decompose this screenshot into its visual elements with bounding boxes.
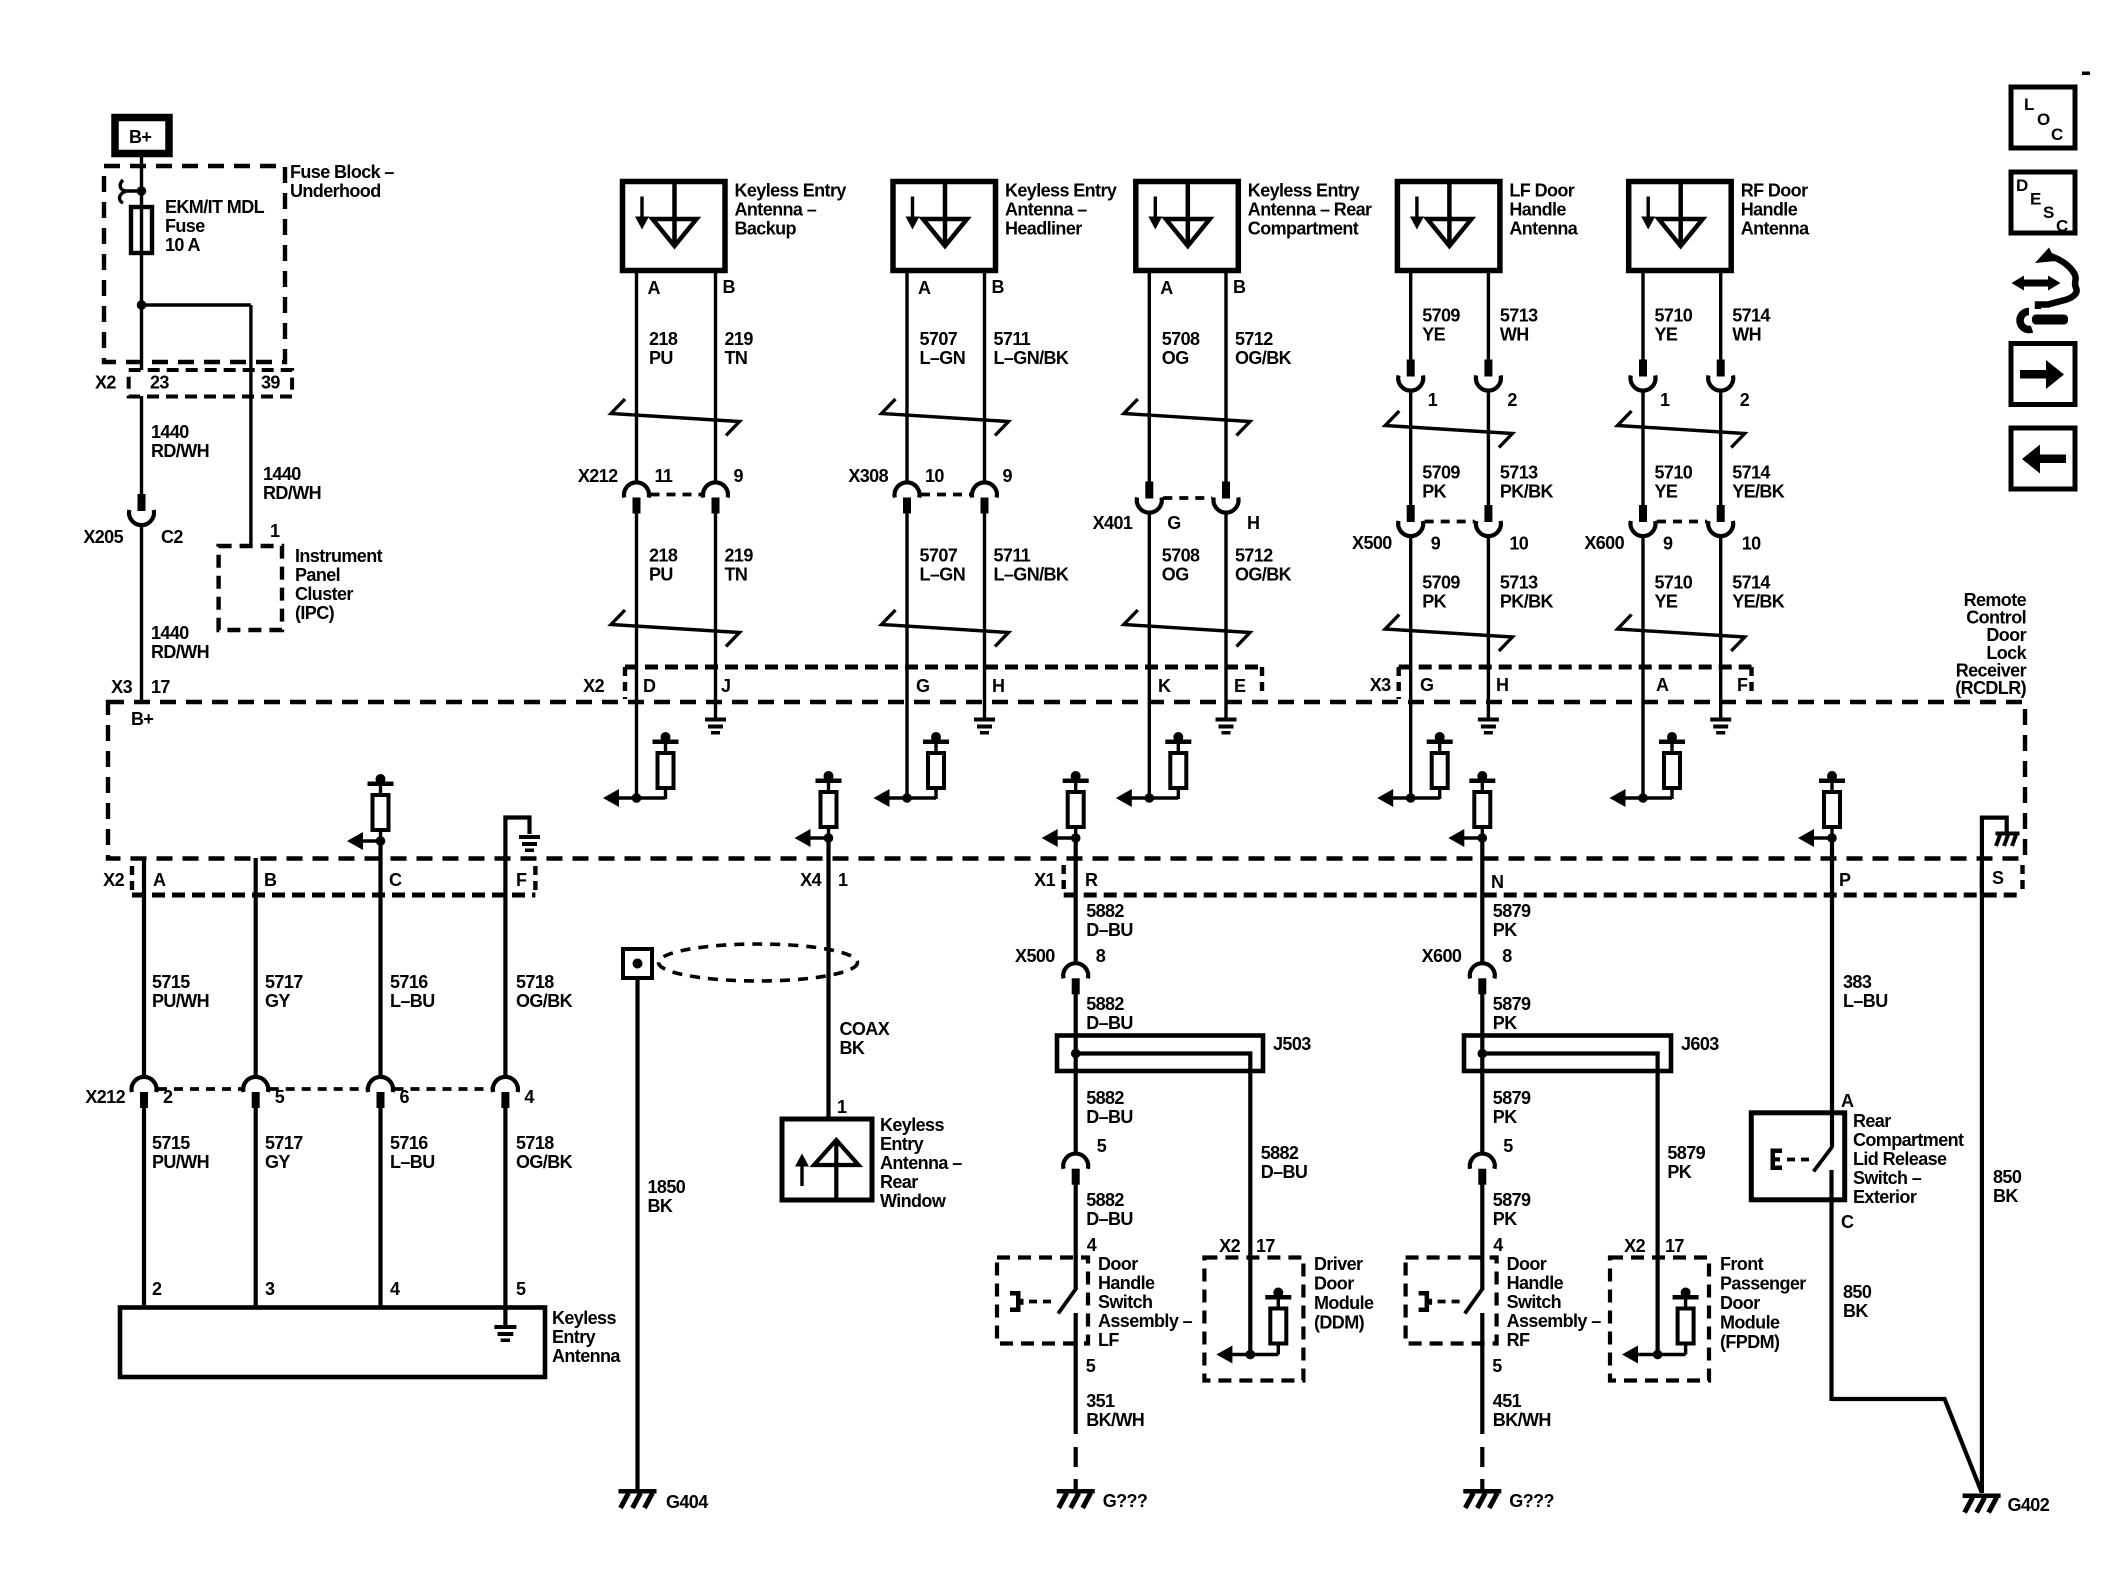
svg-text:Antenna: Antenna (1741, 219, 1810, 239)
svg-text:J: J (721, 676, 730, 696)
Instrument Panel Cluster dashed box (219, 546, 282, 630)
svg-text:9: 9 (734, 466, 744, 486)
svg-text:5882: 5882 (1086, 1190, 1124, 1210)
svg-text:Keyless Entry: Keyless Entry (735, 181, 847, 201)
svg-text:C2: C2 (161, 527, 183, 547)
svg-text:Antenna –: Antenna – (1005, 200, 1087, 220)
svg-text:OG/BK: OG/BK (516, 991, 573, 1011)
svg-text:5707: 5707 (920, 329, 958, 349)
RCDLR internal arrow (1116, 789, 1132, 807)
svg-text:1: 1 (838, 870, 848, 890)
svg-text:Headliner: Headliner (1005, 219, 1082, 239)
svg-text:B: B (992, 277, 1005, 297)
wire P column (383 L-BU) (1830, 838, 1834, 1148)
svg-text:4: 4 (524, 1087, 534, 1107)
svg-text:9: 9 (1663, 534, 1673, 554)
svg-text:L–BU: L–BU (1843, 991, 1888, 1011)
svg-text:G: G (1167, 513, 1180, 533)
svg-text:5: 5 (1097, 1136, 1107, 1156)
junction dot inline (1827, 833, 1837, 843)
dashed wire to ground (1074, 1447, 1078, 1490)
svg-text:Module: Module (1314, 1293, 1374, 1313)
svg-text:L–BU: L–BU (390, 991, 435, 1011)
svg-text:5879: 5879 (1493, 1088, 1531, 1108)
rear switch lower contact (1829, 1170, 1833, 1401)
svg-text:1440: 1440 (151, 623, 189, 643)
wire right (1719, 270, 1722, 361)
junction dot at fuse feed (137, 186, 147, 196)
Keyless Entry Antenna Rear Window box (782, 1119, 872, 1200)
svg-text:Underhood: Underhood (290, 181, 381, 201)
svg-text:C: C (389, 870, 402, 890)
svg-text:5714: 5714 (1732, 463, 1770, 483)
wire S column 850 BK (1980, 866, 1984, 1493)
svg-text:1: 1 (270, 521, 280, 541)
RCDLR internal arrow (1610, 789, 1626, 807)
svg-text:Assembly –: Assembly – (1507, 1311, 1602, 1331)
svg-text:5712: 5712 (1235, 546, 1273, 566)
svg-text:Switch: Switch (1507, 1292, 1561, 1312)
icon LOC (2011, 87, 2075, 148)
svg-text:10 A: 10 A (165, 235, 201, 255)
svg-text:J503: J503 (1273, 1034, 1311, 1054)
wire X4-1 coax down (826, 838, 830, 1119)
svg-text:PK: PK (1493, 1107, 1517, 1127)
RCDLR internal arrow inline (1042, 829, 1058, 847)
RCDLR bottom connector dotted row right (1064, 893, 2023, 898)
svg-text:219: 219 (725, 329, 754, 349)
svg-text:5882: 5882 (1086, 1088, 1124, 1108)
ground G402 (1963, 1494, 2001, 1499)
icon DESC (2011, 172, 2075, 233)
module internal arrow (1216, 1346, 1232, 1364)
junction dot module (1246, 1350, 1256, 1360)
power symbol B+ (115, 118, 169, 154)
wire B (1224, 270, 1227, 484)
svg-text:X600: X600 (1422, 946, 1462, 966)
svg-text:YE: YE (1422, 325, 1445, 345)
svg-text:1440: 1440 (151, 422, 189, 442)
wire B lower (1224, 512, 1227, 719)
svg-text:G404: G404 (666, 1492, 708, 1512)
antenna box LF Door (1397, 182, 1500, 271)
svg-text:2: 2 (1507, 390, 1517, 410)
ground G404 (619, 1489, 657, 1494)
wire 1440 RD/WH pin 23 down (140, 396, 143, 496)
svg-text:BK/WH: BK/WH (1086, 1410, 1144, 1430)
svg-text:351: 351 (1086, 1391, 1115, 1411)
RCDLR internal arrow inline (795, 829, 811, 847)
svg-text:Antenna: Antenna (552, 1346, 621, 1366)
RCDLR internal resistor (1435, 732, 1445, 742)
RCDLR internal arrow (874, 789, 890, 807)
connector row X3 top dotted (1399, 665, 1752, 670)
svg-text:5879: 5879 (1493, 1190, 1531, 1210)
svg-text:A: A (648, 278, 661, 298)
junction dot inline (1478, 833, 1488, 843)
svg-text:X1: X1 (1034, 870, 1055, 890)
connector row X2 top dotted (625, 665, 1262, 670)
svg-text:Backup: Backup (735, 219, 797, 239)
svg-text:A: A (1841, 1091, 1854, 1111)
svg-text:D: D (2016, 176, 2028, 195)
svg-text:1: 1 (1660, 390, 1670, 410)
svg-text:1: 1 (1428, 390, 1438, 410)
module internal resistor (1273, 1288, 1283, 1298)
shield crossing lower (882, 610, 1009, 647)
svg-text:X2: X2 (583, 676, 604, 696)
svg-text:(FPDM): (FPDM) (1720, 1332, 1780, 1352)
svg-text:8: 8 (1096, 946, 1106, 966)
svg-text:11: 11 (655, 466, 673, 486)
module box (DDM) (1204, 1258, 1303, 1381)
svg-text:OG/BK: OG/BK (516, 1152, 573, 1172)
svg-text:TN: TN (725, 565, 748, 585)
svg-text:PU: PU (649, 565, 673, 585)
wire left lower (1641, 535, 1644, 798)
svg-text:17: 17 (151, 677, 170, 697)
svg-text:RF Door: RF Door (1741, 181, 1808, 201)
svg-text:X212: X212 (578, 466, 618, 486)
svg-text:PK: PK (1493, 920, 1517, 940)
wire into switch (1480, 1184, 1484, 1291)
svg-text:5709: 5709 (1422, 463, 1460, 483)
svg-text:X308: X308 (848, 466, 888, 486)
svg-text:(DDM): (DDM) (1314, 1313, 1365, 1333)
svg-text:D–BU: D–BU (1261, 1162, 1308, 1182)
wire right (1487, 270, 1490, 361)
svg-text:Keyless: Keyless (880, 1115, 944, 1135)
svg-text:B: B (264, 870, 277, 890)
svg-text:Handle: Handle (1507, 1273, 1564, 1293)
connector X205 C2 (138, 494, 146, 511)
svg-text:X2: X2 (103, 870, 124, 890)
svg-text:5882: 5882 (1261, 1143, 1299, 1163)
svg-text:850: 850 (1843, 1282, 1872, 1302)
wire 1440 RD/WH pin 39 down (249, 396, 252, 546)
svg-text:RD/WH: RD/WH (151, 441, 209, 461)
RCDLR internal arrow inline (1798, 829, 1814, 847)
svg-text:GY: GY (265, 991, 290, 1011)
icon next arrow (2011, 344, 2075, 405)
svg-text:S: S (1992, 868, 2004, 888)
svg-text:Compartment: Compartment (1248, 219, 1359, 239)
svg-text:Antenna –: Antenna – (880, 1153, 962, 1173)
shield crossing upper (882, 399, 1009, 436)
wire A (1148, 270, 1151, 484)
wire to splice (1480, 993, 1484, 1154)
svg-text:X2: X2 (95, 373, 116, 393)
wire B (983, 270, 986, 484)
svg-text:5709: 5709 (1422, 573, 1460, 593)
svg-text:Module: Module (1720, 1313, 1780, 1333)
switch blade (1058, 1289, 1076, 1314)
svg-text:D–BU: D–BU (1086, 1107, 1133, 1127)
ground G??? (1463, 1489, 1501, 1494)
RCDLR internal resistor inline (1827, 771, 1837, 781)
svg-text:X205: X205 (83, 527, 123, 547)
svg-text:Fuse Block –: Fuse Block – (290, 162, 394, 182)
svg-text:Handle: Handle (1509, 200, 1566, 220)
svg-text:X2: X2 (1624, 1236, 1645, 1256)
wire N column upper (1480, 838, 1484, 964)
module internal resistor (1681, 1288, 1691, 1298)
wire A (905, 270, 908, 484)
shield crossing lower (1124, 610, 1250, 647)
svg-text:Rear: Rear (1853, 1111, 1891, 1131)
junction dot inline (824, 833, 834, 843)
svg-text:5715: 5715 (152, 1133, 190, 1153)
svg-text:X212: X212 (85, 1087, 125, 1107)
svg-text:10: 10 (1509, 534, 1528, 554)
svg-text:D: D (643, 676, 656, 696)
svg-text:LF Door: LF Door (1509, 181, 1574, 201)
wire A lower (905, 514, 908, 798)
svg-text:D–BU: D–BU (1086, 920, 1133, 940)
svg-text:D–BU: D–BU (1086, 1209, 1133, 1229)
svg-text:B+: B+ (129, 127, 151, 147)
icon jump with wrench (2012, 276, 2061, 291)
svg-text:850: 850 (1993, 1167, 2022, 1187)
svg-text:5716: 5716 (390, 1133, 428, 1153)
svg-text:5879: 5879 (1667, 1143, 1705, 1163)
svg-text:5713: 5713 (1500, 463, 1538, 483)
RCDLR internal ground (974, 718, 995, 722)
svg-text:RF: RF (1507, 1330, 1530, 1350)
svg-text:5707: 5707 (920, 546, 958, 566)
splice J503 (1057, 1036, 1263, 1072)
svg-text:383: 383 (1843, 972, 1872, 992)
svg-text:5715: 5715 (152, 972, 190, 992)
svg-text:4: 4 (1493, 1235, 1503, 1255)
svg-text:F: F (516, 870, 527, 890)
svg-text:G402: G402 (2008, 1495, 2050, 1515)
wire right mid (1487, 390, 1490, 507)
RCDLR internal resistor (931, 732, 941, 742)
RCDLR internal resistor inline (824, 771, 834, 781)
svg-text:TN: TN (725, 348, 748, 368)
svg-text:Keyless: Keyless (552, 1308, 616, 1328)
svg-text:PK: PK (1422, 592, 1446, 612)
connector X500 (1407, 505, 1415, 522)
wire X1 column upper (1074, 838, 1078, 964)
svg-text:L–BU: L–BU (390, 1152, 435, 1172)
wire junction to pin 39 (142, 303, 251, 306)
wire A down (142, 858, 146, 1078)
svg-text:G: G (916, 676, 929, 696)
inline connector pin 2 (1717, 360, 1725, 377)
shield crossing lower (611, 610, 740, 647)
svg-text:23: 23 (150, 373, 169, 393)
inline connector pin 1 (1639, 360, 1647, 377)
RCDLR internal resistor (661, 732, 671, 742)
wire B lower (714, 514, 717, 719)
svg-text:Keyless Entry: Keyless Entry (1005, 181, 1117, 201)
svg-text:5: 5 (516, 1279, 526, 1299)
svg-text:Lid Release: Lid Release (1853, 1149, 1947, 1169)
svg-text:BK/WH: BK/WH (1493, 1410, 1551, 1430)
svg-text:RD/WH: RD/WH (151, 642, 209, 662)
ground G??? (1057, 1489, 1095, 1494)
svg-text:X500: X500 (1352, 533, 1392, 553)
svg-text:(RCDLR): (RCDLR) (1955, 678, 2026, 698)
svg-text:X600: X600 (1584, 533, 1624, 553)
icon back arrow (2011, 428, 2075, 489)
svg-text:G???: G??? (1103, 1491, 1148, 1511)
svg-text:YE/BK: YE/BK (1732, 592, 1785, 612)
svg-text:Switch –: Switch – (1853, 1168, 1922, 1188)
svg-text:Handle: Handle (1098, 1273, 1155, 1293)
wire right lower (1487, 535, 1490, 718)
inline connector pin 2 (1484, 360, 1492, 377)
svg-text:17: 17 (1256, 1236, 1275, 1256)
svg-text:2: 2 (1740, 390, 1750, 410)
svg-text:5879: 5879 (1493, 901, 1531, 921)
svg-text:E: E (2030, 190, 2041, 209)
wire right mid (1719, 390, 1722, 507)
door handle switch box Door Handle RF (1406, 1258, 1497, 1344)
svg-text:H: H (1247, 513, 1259, 533)
svg-text:PK: PK (1667, 1162, 1691, 1182)
shield box with dot (623, 949, 652, 978)
svg-text:Passenger: Passenger (1720, 1274, 1806, 1294)
svg-text:5718: 5718 (516, 972, 554, 992)
RCDLR internal resistor inline (1071, 771, 1081, 781)
svg-text:L–GN: L–GN (920, 565, 966, 585)
svg-text:(IPC): (IPC) (295, 603, 335, 623)
wire 1440 RD/WH to RCDLR pin 17 (140, 524, 143, 704)
svg-text:C: C (2056, 217, 2068, 236)
svg-text:5710: 5710 (1655, 306, 1693, 326)
svg-text:Antenna: Antenna (1509, 219, 1578, 239)
svg-text:OG: OG (1162, 348, 1189, 368)
svg-text:LF: LF (1098, 1330, 1119, 1350)
junction dot module (1653, 1350, 1663, 1360)
dashed wire to ground (1480, 1447, 1484, 1490)
svg-text:J603: J603 (1681, 1034, 1719, 1054)
svg-text:5713: 5713 (1500, 573, 1538, 593)
svg-text:EKM/IT MDL: EKM/IT MDL (165, 197, 265, 217)
wire B lower (983, 514, 986, 719)
RCDLR internal resistor inline (1477, 771, 1487, 781)
svg-text:Window: Window (880, 1191, 947, 1211)
svg-text:5882: 5882 (1086, 994, 1124, 1014)
wire C to G402 (1832, 1399, 1982, 1492)
svg-text:A: A (918, 278, 931, 298)
wire left lower (1409, 535, 1412, 798)
svg-text:A: A (1160, 278, 1173, 298)
svg-text:O: O (2037, 110, 2050, 129)
svg-text:YE: YE (1655, 482, 1678, 502)
junction dot (1638, 793, 1648, 803)
RCDLR internal ground (1710, 718, 1731, 722)
svg-text:Handle: Handle (1741, 200, 1798, 220)
RCDLR dashed outline (108, 702, 2025, 859)
wire right lower (1719, 535, 1722, 718)
RCDLR internal arrow (603, 789, 619, 807)
wire to splice (1074, 993, 1078, 1154)
svg-text:G???: G??? (1509, 1491, 1554, 1511)
junction dot (632, 793, 642, 803)
svg-text:X4: X4 (800, 870, 821, 890)
svg-text:E: E (1234, 676, 1246, 696)
svg-text:COAX: COAX (840, 1019, 890, 1039)
RCDLR internal ground (1216, 718, 1237, 722)
svg-text:5710: 5710 (1655, 463, 1693, 483)
svg-text:Switch: Switch (1098, 1292, 1152, 1312)
switch lower contact (1074, 1313, 1078, 1434)
svg-text:N: N (1491, 872, 1503, 892)
svg-text:PK: PK (1493, 1013, 1517, 1033)
svg-text:G: G (1420, 675, 1433, 695)
svg-text:L–GN/BK: L–GN/BK (994, 348, 1069, 368)
svg-text:5708: 5708 (1162, 546, 1200, 566)
svg-text:X401: X401 (1093, 513, 1133, 533)
junction dot inline (1071, 833, 1081, 843)
svg-text:C: C (2051, 125, 2063, 144)
svg-text:1850: 1850 (648, 1177, 686, 1197)
shield crossing upper (611, 399, 740, 436)
Rear Compartment Lid Release Switch box (1751, 1113, 1844, 1200)
svg-text:X3: X3 (1370, 675, 1391, 695)
svg-text:5714: 5714 (1732, 306, 1770, 326)
svg-text:BK: BK (840, 1038, 865, 1058)
svg-text:B: B (723, 277, 736, 297)
wire F with ground hook (505, 818, 529, 1079)
shield crossing upper (1385, 411, 1512, 448)
wire 1850 BK (635, 978, 639, 1489)
RCDLR internal resistor (1667, 732, 1677, 742)
switch lower contact (1480, 1313, 1484, 1434)
svg-text:B: B (1233, 277, 1246, 297)
wire left (1409, 270, 1412, 361)
svg-text:PU/WH: PU/WH (152, 991, 209, 1011)
svg-text:OG/BK: OG/BK (1235, 348, 1292, 368)
dashed link to blade (1787, 1158, 1810, 1162)
svg-text:Door: Door (1720, 1293, 1760, 1313)
svg-text:WH: WH (1500, 325, 1529, 345)
junction dot (902, 793, 912, 803)
branch wire into module (1248, 1071, 1252, 1355)
svg-text:Entry: Entry (552, 1327, 596, 1347)
shield crossing upper (1124, 399, 1250, 436)
svg-text:5: 5 (1503, 1136, 1513, 1156)
bus tap hook (120, 180, 142, 203)
svg-text:Assembly –: Assembly – (1098, 1311, 1193, 1331)
svg-text:5712: 5712 (1235, 329, 1273, 349)
E symbol (1771, 1149, 1776, 1171)
svg-text:X3: X3 (111, 677, 132, 697)
svg-text:10: 10 (925, 466, 944, 486)
svg-text:L–GN: L–GN (920, 348, 966, 368)
svg-text:Compartment: Compartment (1853, 1130, 1964, 1150)
svg-text:P: P (1839, 870, 1851, 890)
wire left mid (1641, 390, 1644, 507)
wire into switch (1074, 1184, 1078, 1291)
shield crossing lower (1385, 615, 1512, 652)
antenna box Backup (623, 182, 726, 271)
svg-text:Fuse: Fuse (165, 216, 205, 236)
svg-text:5717: 5717 (265, 1133, 303, 1153)
svg-text:L–GN/BK: L–GN/BK (994, 565, 1069, 585)
antenna box RF Door (1629, 182, 1732, 271)
Keyless Entry Antenna box (120, 1308, 545, 1378)
shield crossing lower (1618, 615, 1745, 652)
wire left mid (1409, 390, 1412, 507)
svg-text:PK: PK (1422, 482, 1446, 502)
wire B down (254, 858, 258, 1078)
svg-text:5708: 5708 (1162, 329, 1200, 349)
